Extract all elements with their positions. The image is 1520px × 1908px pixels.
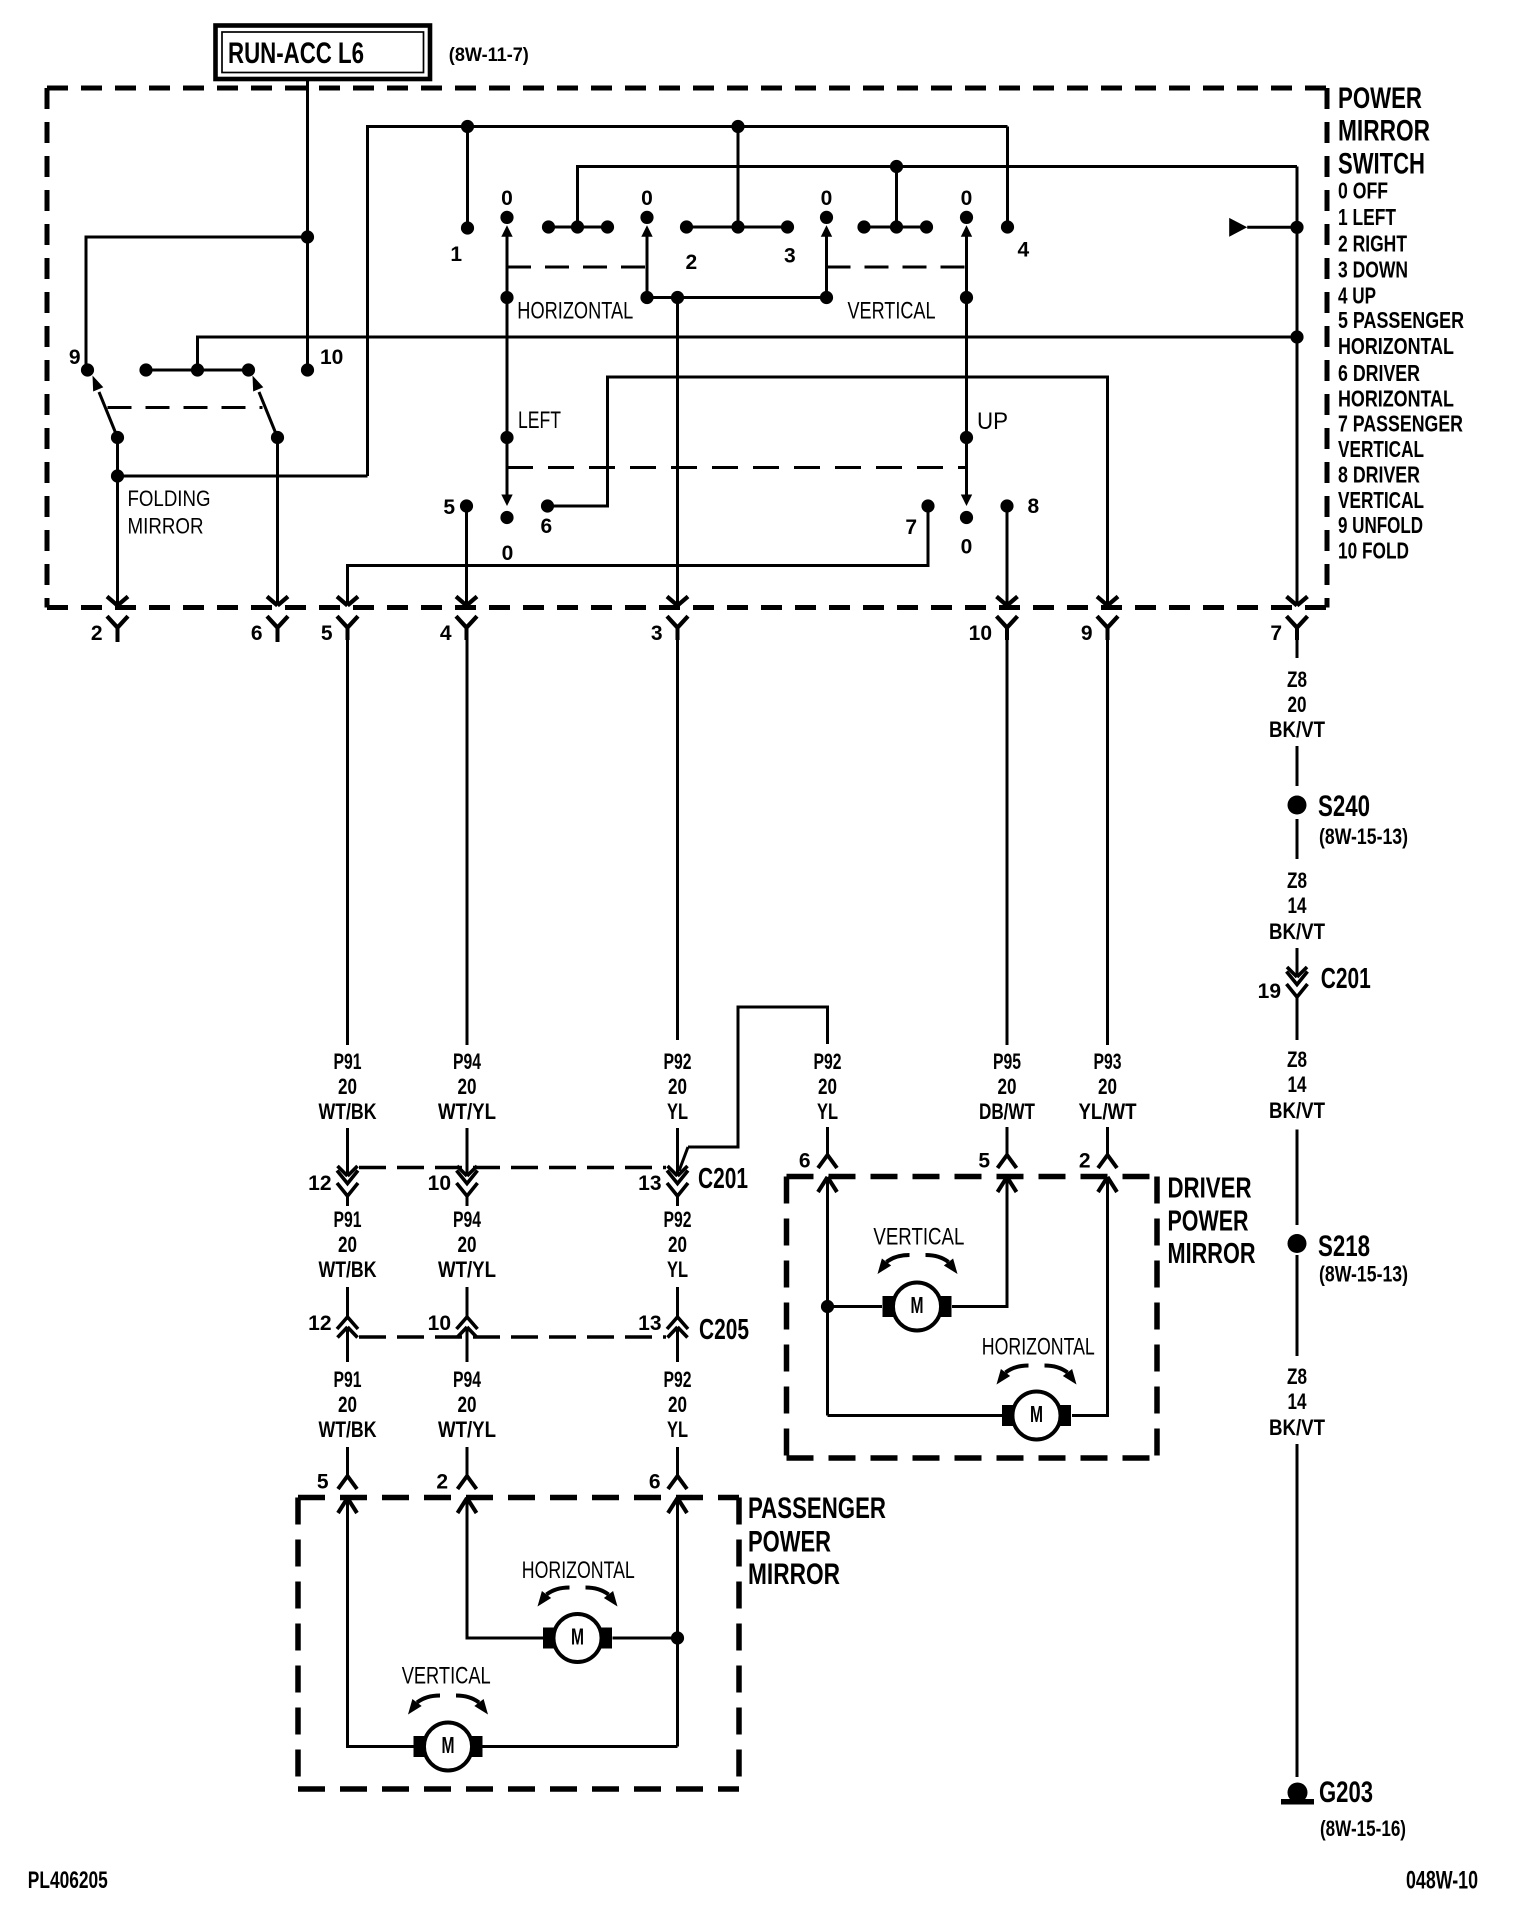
svg-text:P94: P94 <box>453 1207 482 1232</box>
wire strip riser <box>737 127 740 228</box>
svg-text:P94: P94 <box>453 1367 482 1392</box>
svg-text:048W-10: 048W-10 <box>1406 1867 1478 1895</box>
wire to driver pin 2 <box>1106 1127 1109 1155</box>
splice S240 <box>1288 796 1307 815</box>
wiper arrow horizontal-right <box>641 225 652 237</box>
wire diagonal into C201 pin13 <box>679 1147 688 1171</box>
svg-text:10: 10 <box>320 346 343 369</box>
rotation arrows <box>547 1588 570 1595</box>
wire driver pin6 down <box>826 1177 829 1416</box>
mirror connector pin 2 <box>1098 1155 1117 1168</box>
folding pivot 2 dot <box>271 431 284 444</box>
svg-text:G203: G203 <box>1319 1776 1373 1809</box>
wire pin7 down <box>1296 628 1299 658</box>
wiper arrow vertical-right <box>961 225 972 237</box>
svg-text:POWER: POWER <box>1338 82 1422 115</box>
svg-text:P93: P93 <box>1094 1049 1122 1074</box>
wire folding feed <box>86 237 308 370</box>
wire contact5 to pin4 <box>465 506 468 606</box>
svg-text:HORIZONTAL: HORIZONTAL <box>522 1557 635 1584</box>
junction dot common-pin3 <box>671 291 684 304</box>
junction dot common-right <box>820 291 833 304</box>
svg-text:LEFT: LEFT <box>518 407 561 434</box>
svg-text:20: 20 <box>998 1074 1017 1099</box>
svg-text:(8W-15-13): (8W-15-13) <box>1319 1262 1408 1287</box>
contact 1 dot <box>461 221 474 234</box>
junction dot feed/folding <box>301 230 314 243</box>
wire passenger pin2 to horizontal motor <box>467 1498 543 1638</box>
svg-text:MIRROR: MIRROR <box>1168 1238 1256 1270</box>
svg-text:5: 5 <box>317 1471 329 1494</box>
svg-text:20: 20 <box>458 1074 477 1099</box>
svg-text:WT/YL: WT/YL <box>438 1099 496 1124</box>
junction dot pin2 tap <box>111 469 124 482</box>
wire L1 top feed bus <box>368 127 1008 477</box>
svg-text:MIRROR: MIRROR <box>748 1558 840 1591</box>
motor M driver vertical <box>883 1296 894 1317</box>
svg-text:2: 2 <box>686 251 698 274</box>
svg-text:9: 9 <box>69 346 81 369</box>
wire pivot1 to pin2 <box>116 438 119 606</box>
folding contact strip <box>146 369 249 372</box>
contact trio 2 <box>864 226 927 229</box>
svg-text:20: 20 <box>668 1392 687 1417</box>
svg-text:BK/VT: BK/VT <box>1269 717 1325 742</box>
svg-text:(8W-11-7): (8W-11-7) <box>449 45 529 66</box>
svg-text:M: M <box>1030 1401 1043 1427</box>
svg-text:3: 3 <box>651 622 663 645</box>
wire to driver horizontal motor left <box>828 1414 1003 1417</box>
svg-text:P95: P95 <box>993 1049 1021 1074</box>
connector C201 pin 10 <box>457 1166 467 1176</box>
svg-text:MIRROR: MIRROR <box>1338 115 1430 148</box>
wire to driver vertical motor left <box>828 1305 883 1308</box>
wire to S218 <box>1296 1130 1299 1226</box>
motor M driver horizontal <box>1002 1405 1013 1426</box>
svg-text:20: 20 <box>338 1232 357 1257</box>
junction dot L2 trio2 riser <box>890 160 903 173</box>
svg-text:MIRROR: MIRROR <box>128 513 204 538</box>
svg-text:WT/YL: WT/YL <box>438 1417 496 1442</box>
svg-text:20: 20 <box>338 1074 357 1099</box>
connector C201 pin 19 <box>1287 967 1297 977</box>
svg-text:4: 4 <box>1018 239 1030 262</box>
svg-text:VERTICAL: VERTICAL <box>402 1663 491 1690</box>
svg-text:POWER: POWER <box>1168 1205 1249 1237</box>
svg-text:BK/VT: BK/VT <box>1269 1415 1325 1440</box>
wire to driver pin 5 <box>1006 1127 1009 1155</box>
wire right bus x=1297 to pin 7 <box>1296 167 1299 606</box>
wire pivot2 to pin6 <box>276 438 279 606</box>
mirror connector pin 6 <box>668 1476 687 1489</box>
svg-text:Z8: Z8 <box>1287 868 1307 893</box>
svg-text:6: 6 <box>649 1471 661 1494</box>
svg-text:SWITCH: SWITCH <box>1338 147 1425 180</box>
svg-text:YL: YL <box>667 1257 688 1282</box>
wire L5 contact7 to pin5 <box>348 506 929 606</box>
arrow to UP 0 <box>961 495 972 507</box>
svg-text:13: 13 <box>638 1172 661 1195</box>
contact 0 dot (horizontal right) <box>640 211 653 224</box>
contact 5 dot <box>460 499 473 512</box>
svg-text:WT/BK: WT/BK <box>319 1257 377 1282</box>
wire jog from driver mirror common <box>688 1007 828 1147</box>
svg-text:0 OFF: 0 OFF <box>1338 177 1388 203</box>
svg-text:0: 0 <box>961 536 973 559</box>
power mirror switch box <box>47 86 1327 91</box>
wire pin10 down <box>1006 638 1009 1045</box>
svg-text:RUN-ACC L6: RUN-ACC L6 <box>228 37 364 70</box>
svg-text:20: 20 <box>668 1074 687 1099</box>
svg-text:13: 13 <box>638 1312 661 1335</box>
driver power mirror box <box>787 1174 1158 1180</box>
svg-text:7 PASSENGER: 7 PASSENGER <box>1338 411 1463 437</box>
wire pin9 down <box>1106 638 1109 1045</box>
mechanical link folding <box>108 406 263 409</box>
wire to passenger pin 5 <box>346 1447 349 1476</box>
wire to C205 <box>466 1287 469 1317</box>
svg-text:4 UP: 4 UP <box>1338 282 1376 308</box>
wire pin4 down <box>466 638 469 1045</box>
svg-text:19: 19 <box>1258 980 1281 1003</box>
contact 4 dot <box>1001 220 1014 233</box>
mirror connector pin 5 <box>998 1155 1017 1168</box>
wire driver pin5 to vertical motor <box>952 1177 1007 1307</box>
wire to C201 <box>346 1128 349 1176</box>
junction dot x1297 L4 <box>1290 330 1303 343</box>
svg-text:UP: UP <box>977 408 1008 435</box>
connector row C201 dashed line <box>359 1166 666 1169</box>
svg-text:Z8: Z8 <box>1287 1047 1307 1072</box>
svg-text:0: 0 <box>961 187 973 210</box>
connector C201 pin 13 <box>668 1166 678 1176</box>
svg-text:C205: C205 <box>699 1314 749 1346</box>
mechanical link horizontal switch <box>507 266 647 269</box>
svg-text:PASSENGER: PASSENGER <box>748 1492 886 1525</box>
svg-text:Z8: Z8 <box>1287 667 1307 692</box>
svg-text:5 PASSENGER: 5 PASSENGER <box>1338 307 1464 333</box>
rotation arrows <box>887 1255 910 1262</box>
svg-text:HORIZONTAL: HORIZONTAL <box>1338 385 1454 411</box>
svg-text:VERTICAL: VERTICAL <box>1338 436 1424 462</box>
svg-text:POWER: POWER <box>748 1526 831 1559</box>
svg-text:8: 8 <box>1028 495 1040 518</box>
connector row C205 dashed line <box>359 1335 666 1338</box>
svg-text:20: 20 <box>668 1232 687 1257</box>
svg-text:2: 2 <box>436 1471 448 1494</box>
svg-text:DRIVER: DRIVER <box>1168 1172 1252 1204</box>
svg-text:(8W-15-13): (8W-15-13) <box>1319 824 1408 849</box>
switch connector pin 7 <box>1287 597 1298 606</box>
svg-text:HORIZONTAL: HORIZONTAL <box>982 1333 1095 1360</box>
mirror connector pin 5 <box>338 1476 357 1489</box>
svg-text:20: 20 <box>818 1074 837 1099</box>
svg-text:6 DRIVER: 6 DRIVER <box>1338 360 1420 386</box>
junction dot passenger common <box>671 1631 684 1644</box>
svg-text:Z8: Z8 <box>1287 1364 1307 1389</box>
junction dot vertical common <box>960 291 973 304</box>
junction dot L1-contacts2-3 <box>731 120 744 133</box>
svg-text:6: 6 <box>251 622 263 645</box>
wire pin3 down <box>676 638 679 1040</box>
switch connector pin 10 <box>997 597 1008 606</box>
svg-text:14: 14 <box>1288 1072 1308 1097</box>
contact 2-3 strip <box>687 226 788 229</box>
connector C205 pin 13 <box>667 1317 688 1329</box>
svg-text:5: 5 <box>978 1150 990 1173</box>
svg-text:1: 1 <box>450 243 462 266</box>
wire contact4 riser <box>1006 127 1009 228</box>
wire to C205 <box>346 1287 349 1317</box>
node 10 contact dot <box>301 363 314 376</box>
wire driver pin2 to horizontal motor <box>1072 1177 1108 1416</box>
svg-text:C201: C201 <box>698 1163 748 1195</box>
svg-text:6: 6 <box>799 1150 811 1173</box>
svg-text:5: 5 <box>443 496 455 519</box>
wire L4 long bus to pin7 <box>198 337 1298 370</box>
wiper arrow horizontal-left <box>501 225 512 237</box>
svg-text:C201: C201 <box>1321 963 1371 995</box>
svg-text:VERTICAL: VERTICAL <box>873 1224 964 1251</box>
svg-text:12: 12 <box>308 1312 331 1335</box>
svg-text:14: 14 <box>1288 893 1308 918</box>
motor M passenger vertical <box>414 1736 425 1757</box>
svg-text:2: 2 <box>91 622 103 645</box>
wire common bus P92 <box>647 296 827 299</box>
svg-text:VERTICAL: VERTICAL <box>1338 487 1424 513</box>
switch connector pin 3 <box>667 597 678 606</box>
wire contact6 jog to pin9 <box>548 377 1108 606</box>
svg-text:10: 10 <box>428 1172 451 1195</box>
svg-text:DB/WT: DB/WT <box>979 1099 1035 1124</box>
svg-text:P91: P91 <box>334 1367 362 1392</box>
svg-text:WT/BK: WT/BK <box>319 1417 377 1442</box>
splice S218 <box>1288 1234 1307 1253</box>
svg-text:20: 20 <box>1288 692 1307 717</box>
junction dot L1-contact1 <box>461 120 474 133</box>
direction arrow symbol <box>1229 218 1247 237</box>
wire passenger pin6 down <box>676 1498 679 1747</box>
node 9 contact dot <box>81 363 94 376</box>
wire wiper to common <box>825 236 828 298</box>
junction dot x1297 arrow tap <box>1290 221 1303 234</box>
svg-text:9 UNFOLD: 9 UNFOLD <box>1338 512 1423 538</box>
svg-text:YL: YL <box>667 1099 688 1124</box>
wire from RUN-ACC L6 into switch <box>306 79 309 370</box>
switch connector pin 4 <box>456 597 467 606</box>
svg-text:7: 7 <box>905 516 917 539</box>
wire to vertical motor right <box>483 1745 678 1748</box>
svg-text:YL: YL <box>817 1099 838 1124</box>
contact 8 dot <box>1000 499 1013 512</box>
svg-text:4: 4 <box>440 622 452 645</box>
svg-text:12: 12 <box>308 1172 331 1195</box>
svg-text:M: M <box>442 1732 455 1758</box>
wire contact1 riser <box>466 127 469 228</box>
wire to horizontal motor right <box>613 1637 678 1640</box>
svg-text:P91: P91 <box>334 1207 362 1232</box>
wire wiper to UP contact <box>965 236 968 500</box>
svg-text:WT/BK: WT/BK <box>319 1099 377 1124</box>
contact 0 dot (vertical left) <box>820 211 833 224</box>
svg-text:9: 9 <box>1081 622 1093 645</box>
svg-text:10: 10 <box>428 1312 451 1335</box>
svg-text:P92: P92 <box>814 1049 842 1074</box>
svg-text:BK/VT: BK/VT <box>1269 1098 1325 1123</box>
wire from S218 <box>1296 1255 1299 1356</box>
wire pin5 down <box>346 638 349 1045</box>
contact 7 dot <box>921 499 934 512</box>
svg-text:0: 0 <box>502 542 514 565</box>
svg-text:(8W-15-16): (8W-15-16) <box>1320 1816 1406 1841</box>
svg-text:8 DRIVER: 8 DRIVER <box>1338 461 1420 487</box>
svg-text:WT/YL: WT/YL <box>438 1257 496 1282</box>
svg-text:HORIZONTAL: HORIZONTAL <box>517 298 633 325</box>
switch connector pin 9 <box>1097 597 1108 606</box>
svg-text:3: 3 <box>784 245 796 268</box>
svg-text:20: 20 <box>1098 1074 1117 1099</box>
junction dot driver common <box>821 1300 834 1313</box>
wire to C201 pin19 <box>1296 948 1299 977</box>
wire L2 second bus <box>578 167 1298 228</box>
svg-text:2: 2 <box>1079 1150 1091 1173</box>
contact 6 dot <box>541 499 554 512</box>
svg-text:P92: P92 <box>664 1367 692 1392</box>
svg-text:1 LEFT: 1 LEFT <box>1338 204 1396 230</box>
wire wiper to common bus <box>646 236 649 298</box>
junction dot strip riser <box>731 220 744 233</box>
svg-text:P92: P92 <box>664 1207 692 1232</box>
wire pin3 from common <box>676 298 679 606</box>
wire to driver pin 6 <box>826 1127 829 1155</box>
folding blade 1 <box>99 392 118 438</box>
wire passenger pin5 to vertical motor <box>348 1498 414 1747</box>
wire to C201 <box>466 1128 469 1176</box>
svg-text:2 RIGHT: 2 RIGHT <box>1338 230 1407 256</box>
folding pivot 1 dot <box>111 431 124 444</box>
svg-text:0: 0 <box>501 187 513 210</box>
UP contact dot <box>960 431 973 444</box>
junction dot common-left <box>640 291 653 304</box>
wire to passenger pin 2 <box>466 1447 469 1476</box>
rotation arrows <box>1006 1366 1029 1373</box>
connector C201 pin 12 <box>338 1166 348 1176</box>
rotation arrows <box>417 1696 440 1703</box>
svg-text:FOLDING: FOLDING <box>128 486 211 511</box>
LEFT contact dot <box>500 431 513 444</box>
wire riser trio2 <box>895 167 898 228</box>
wire to C205 pin13 <box>676 1287 679 1317</box>
svg-text:P92: P92 <box>664 1049 692 1074</box>
svg-text:3 DOWN: 3 DOWN <box>1338 256 1408 282</box>
svg-text:YL/WT: YL/WT <box>1079 1099 1137 1124</box>
svg-text:10: 10 <box>969 622 992 645</box>
svg-text:10 FOLD: 10 FOLD <box>1338 538 1409 564</box>
svg-text:7: 7 <box>1270 622 1282 645</box>
svg-text:VERTICAL: VERTICAL <box>848 298 936 325</box>
contact 0 dot (horizontal left) <box>500 211 513 224</box>
wire to C201 pin13 <box>676 1128 679 1176</box>
svg-text:14: 14 <box>1288 1389 1308 1414</box>
svg-text:M: M <box>571 1623 584 1649</box>
svg-text:S240: S240 <box>1318 790 1370 823</box>
svg-text:P91: P91 <box>334 1049 362 1074</box>
wire to S240 <box>1296 746 1299 786</box>
switch connector pin 2 <box>107 597 118 606</box>
wire to ground <box>1296 1444 1299 1777</box>
connector C205 pin 12 <box>337 1317 358 1329</box>
svg-text:YL: YL <box>667 1417 688 1442</box>
passenger power mirror box <box>298 1495 739 1501</box>
svg-text:5: 5 <box>321 622 333 645</box>
wire wiper to LEFT contact <box>506 236 509 500</box>
svg-text:0: 0 <box>821 187 833 210</box>
mechanical link vertical switch <box>827 266 967 269</box>
svg-text:20: 20 <box>458 1232 477 1257</box>
fuse feed box RUN-ACC L6 <box>216 26 431 80</box>
wiper arrow vertical-left <box>821 225 832 237</box>
arrow to LEFT 0 <box>501 495 512 507</box>
svg-text:BK/VT: BK/VT <box>1269 919 1325 944</box>
mechanical link left-up <box>507 466 967 469</box>
ground G203 <box>1288 1783 1308 1803</box>
svg-text:S218: S218 <box>1318 1230 1370 1263</box>
svg-text:0: 0 <box>641 187 653 210</box>
contact trio 1 <box>549 226 608 229</box>
switch connector pin 6 <box>267 597 278 606</box>
wire to passenger pin 6 <box>676 1447 679 1476</box>
wire from S240 <box>1296 819 1299 859</box>
svg-text:P94: P94 <box>453 1049 482 1074</box>
wire pin2-tap to L1 <box>118 475 368 478</box>
LEFT 0 contact dot <box>500 511 513 524</box>
svg-text:HORIZONTAL: HORIZONTAL <box>1338 333 1454 359</box>
connector C205 pin 10 <box>457 1317 478 1329</box>
contact 0 dot (vertical right) <box>960 211 973 224</box>
mirror connector pin 6 <box>818 1155 837 1168</box>
UP 0 contact dot <box>960 511 973 524</box>
svg-text:M: M <box>911 1292 924 1318</box>
svg-text:20: 20 <box>458 1392 477 1417</box>
junction dot horizontal common <box>500 291 513 304</box>
motor M passenger horizontal <box>543 1628 554 1649</box>
mirror connector pin 2 <box>458 1476 477 1489</box>
svg-text:6: 6 <box>541 515 553 538</box>
svg-text:PL406205: PL406205 <box>28 1867 108 1894</box>
svg-text:20: 20 <box>338 1392 357 1417</box>
wire contact8 to pin10 <box>1006 506 1009 606</box>
switch connector pin 5 <box>337 597 348 606</box>
folding blade 2 <box>259 392 278 438</box>
